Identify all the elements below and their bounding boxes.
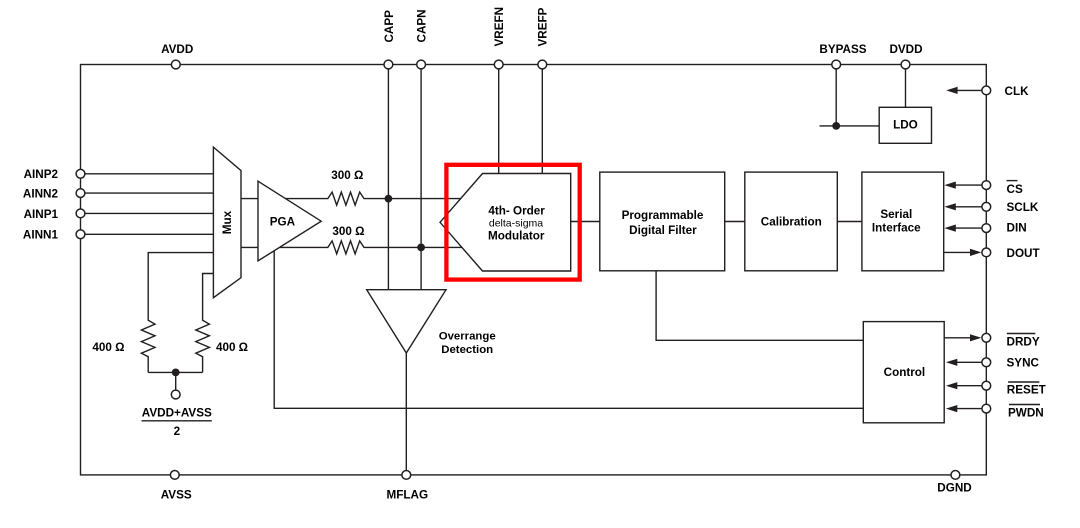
svg-text:AVDD: AVDD — [161, 43, 193, 56]
svg-text:PWDN: PWDN — [1008, 406, 1044, 419]
svg-text:DIN: DIN — [1007, 222, 1027, 235]
svg-text:AINN1: AINN1 — [23, 229, 59, 242]
svg-text:4th- Order: 4th- Order — [488, 204, 545, 217]
svg-text:DVDD: DVDD — [889, 43, 922, 56]
svg-text:AINN2: AINN2 — [23, 188, 59, 201]
svg-text:AVDD+AVSS: AVDD+AVSS — [142, 407, 212, 420]
svg-text:DOUT: DOUT — [1007, 247, 1041, 260]
svg-text:Interface: Interface — [872, 221, 921, 234]
svg-text:RESET: RESET — [1007, 384, 1047, 397]
svg-text:Detection: Detection — [441, 344, 493, 356]
svg-text:PGA: PGA — [270, 216, 296, 229]
svg-text:Control: Control — [884, 366, 926, 379]
svg-text:300 Ω: 300 Ω — [331, 169, 363, 182]
svg-text:CLK: CLK — [1005, 85, 1030, 98]
svg-text:MFLAG: MFLAG — [387, 489, 429, 502]
svg-text:delta-sigma: delta-sigma — [489, 218, 543, 230]
svg-text:SCLK: SCLK — [1007, 201, 1039, 214]
svg-text:Modulator: Modulator — [488, 229, 545, 242]
svg-text:SYNC: SYNC — [1007, 357, 1040, 370]
svg-text:Calibration: Calibration — [761, 215, 822, 228]
svg-text:AVSS: AVSS — [161, 488, 192, 501]
svg-text:2: 2 — [174, 425, 181, 438]
svg-text:400 Ω: 400 Ω — [92, 341, 124, 354]
svg-text:CS: CS — [1007, 183, 1023, 196]
svg-text:VREFP: VREFP — [537, 7, 550, 46]
svg-text:Digital Filter: Digital Filter — [629, 224, 697, 237]
svg-text:Overrange: Overrange — [439, 331, 496, 343]
svg-text:CAPN: CAPN — [416, 9, 429, 42]
svg-text:Serial: Serial — [880, 208, 912, 221]
svg-text:Programmable: Programmable — [622, 209, 704, 222]
svg-text:CAPP: CAPP — [383, 10, 396, 43]
svg-text:DGND: DGND — [937, 481, 971, 494]
svg-text:VREFN: VREFN — [493, 7, 506, 47]
svg-text:300 Ω: 300 Ω — [332, 225, 364, 238]
svg-text:DRDY: DRDY — [1007, 336, 1040, 349]
svg-text:BYPASS: BYPASS — [819, 43, 866, 56]
svg-text:Mux: Mux — [221, 210, 234, 234]
svg-text:AINP1: AINP1 — [24, 208, 59, 221]
svg-text:AINP2: AINP2 — [24, 168, 59, 181]
svg-text:LDO: LDO — [893, 118, 918, 131]
svg-text:400 Ω: 400 Ω — [216, 341, 248, 354]
